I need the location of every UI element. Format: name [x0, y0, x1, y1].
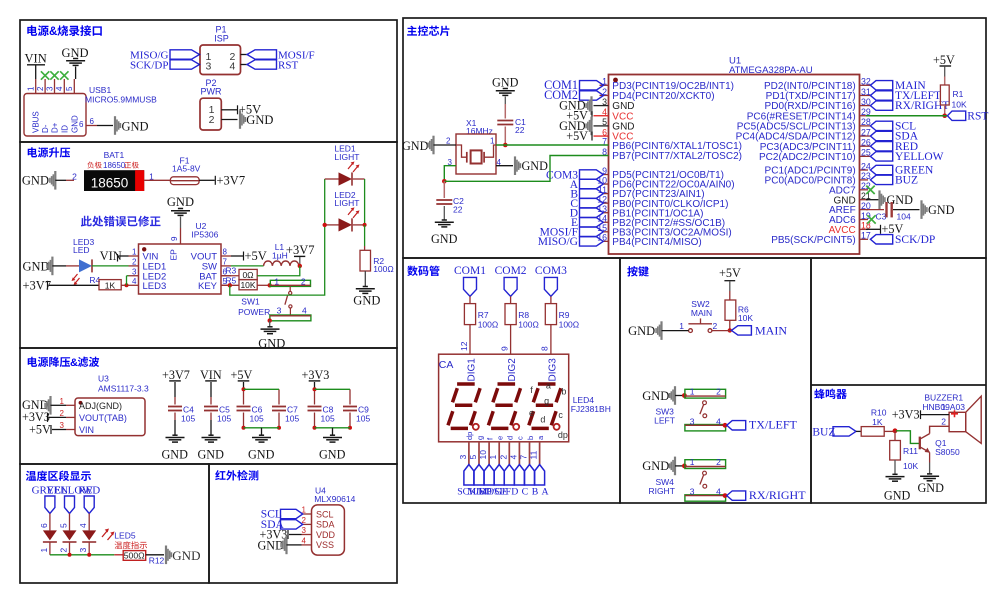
svg-text:PB4(PCINT4/MISO): PB4(PCINT4/MISO) [612, 237, 701, 248]
resistor R9 100ohm [545, 304, 556, 325]
net flag RX/RIGHT [727, 491, 746, 500]
ground (C6 C7) [252, 435, 271, 442]
svg-text:RST: RST [967, 111, 988, 123]
capacitor C2 22 [443, 181, 445, 198]
svg-text:MAIN: MAIN [691, 308, 712, 318]
svg-text:105: 105 [181, 414, 195, 424]
svg-text:PB7(PCINT7/XTAL2/TOSC2): PB7(PCINT7/XTAL2/TOSC2) [612, 151, 742, 162]
section title 数码管 [407, 266, 439, 276]
svg-text:GND: GND [431, 232, 458, 246]
svg-text:USB1: USB1 [89, 85, 111, 95]
wire C8/C9 bottoms to GND [315, 427, 351, 429]
svg-text:2: 2 [941, 417, 946, 427]
svg-text:30: 30 [861, 97, 871, 107]
svg-text:GND: GND [258, 538, 285, 552]
wire GND to LED3 [52, 265, 66, 267]
svg-text:LED3: LED3 [143, 281, 167, 292]
svg-text:+3V7: +3V7 [217, 174, 246, 188]
svg-text:105: 105 [217, 414, 231, 424]
svg-text:5: 5 [602, 117, 607, 127]
svg-text:RIGHT: RIGHT [648, 486, 674, 496]
svg-text:SDA: SDA [316, 520, 335, 530]
resistor R12 500ohm [123, 551, 146, 561]
U1 left pin stubs 1-6 [600, 84, 609, 86]
svg-text:GND: GND [70, 115, 79, 133]
svg-text:2: 2 [446, 137, 451, 146]
wire +5V to R1 [944, 67, 946, 77]
wire R10 to base node [884, 430, 895, 432]
svg-text:6: 6 [79, 120, 84, 129]
wire node to Q1 base [896, 431, 920, 444]
svg-text:104: 104 [897, 212, 911, 222]
wire Q1 emitter to GND [929, 452, 931, 462]
svg-text:4: 4 [302, 306, 307, 316]
capacitor C1 22 [497, 120, 513, 122]
svg-text:10: 10 [478, 450, 488, 460]
svg-text:100Ω: 100Ω [373, 264, 394, 274]
svg-text:4: 4 [78, 523, 88, 528]
ground (C5) [202, 435, 221, 442]
svg-text:1K: 1K [105, 281, 116, 291]
svg-text:1A5-8V: 1A5-8V [172, 164, 201, 174]
net flag MOSI/F [247, 50, 277, 59]
wire KEY node up to LEDs [230, 179, 325, 295]
svg-text:8: 8 [540, 346, 550, 351]
svg-text:GND: GND [246, 113, 273, 127]
svg-text:D+: D+ [51, 122, 60, 133]
net label +5V (U2) [243, 252, 245, 261]
svg-text:VIN: VIN [25, 52, 47, 66]
connector USB1 body [24, 94, 86, 137]
svg-text:c: c [516, 436, 525, 440]
wire C3 to GND [893, 209, 920, 211]
svg-text:AMS1117-3.3: AMS1117-3.3 [98, 384, 149, 394]
wire C6/C7 bottoms to GND [244, 427, 280, 429]
svg-text:1: 1 [27, 86, 36, 91]
svg-text:27: 27 [861, 127, 871, 137]
wire X1 pin1 to U1 PB6 [496, 144, 609, 146]
LED4 digit 3 segments [538, 382, 556, 386]
svg-text:YELLOW: YELLOW [895, 151, 944, 163]
svg-text:10K: 10K [738, 313, 753, 323]
svg-text:8: 8 [223, 248, 228, 257]
svg-text:11: 11 [529, 450, 539, 459]
svg-text:22: 22 [453, 204, 463, 214]
section title 红外检测 [215, 470, 258, 481]
svg-text:9: 9 [499, 346, 509, 351]
wire VIN to U2 pin1 [119, 255, 129, 257]
svg-text:CA: CA [439, 359, 454, 371]
svg-text:5: 5 [468, 455, 478, 460]
wire COM3 to R9 [550, 296, 552, 303]
net flag BUZ [870, 175, 892, 184]
svg-text:+3V3: +3V3 [302, 368, 330, 382]
svg-text:+5V: +5V [245, 249, 267, 263]
svg-text:LEFT: LEFT [654, 416, 675, 426]
wire GND to U2 EP pin9 [180, 217, 182, 229]
svg-text:SCL: SCL [316, 509, 334, 519]
svg-text:VIN: VIN [79, 425, 94, 435]
svg-text:100Ω: 100Ω [559, 319, 580, 329]
svg-text:LED5: LED5 [114, 531, 136, 541]
wire P2 pin2 to GND [221, 119, 237, 121]
resistor R7 100ohm [464, 304, 475, 325]
svg-text:GND: GND [198, 448, 225, 462]
section title 电源&烧录接口 [27, 25, 49, 36]
svg-text:4: 4 [55, 86, 64, 91]
capacitor C7 105 [278, 389, 280, 404]
svg-text:4: 4 [508, 455, 518, 460]
ground symbol (usb GND) [66, 59, 85, 66]
ground flag GND (C3) [920, 200, 927, 219]
svg-text:4: 4 [230, 60, 236, 72]
wire U2 KEY to R5 [221, 284, 239, 286]
svg-text:BUZZER1: BUZZER1 [924, 393, 963, 403]
svg-text:BUZ: BUZ [812, 427, 835, 439]
U4 pin stubs and numbers [302, 513, 312, 515]
ground (C2) [435, 220, 454, 227]
svg-text:12: 12 [459, 341, 469, 351]
svg-text:ISP: ISP [214, 34, 229, 44]
svg-text:1: 1 [679, 321, 684, 331]
wire C2 to GND [443, 206, 445, 220]
svg-text:EP: EP [169, 249, 179, 261]
svg-text:28: 28 [861, 117, 871, 127]
svg-text:1K: 1K [872, 417, 883, 427]
wire R1 to RST net [944, 105, 946, 116]
svg-text:DIG2: DIG2 [507, 358, 518, 382]
ground (C8 C9) [323, 435, 342, 442]
net port COM2 [504, 277, 517, 296]
wire pin6 to GND [97, 125, 113, 127]
net port and LED5 element 1 [45, 496, 55, 514]
svg-text:R5: R5 [225, 276, 236, 286]
wire X1 pin3 down to C2 [444, 166, 456, 182]
svg-text:25: 25 [861, 148, 871, 158]
svg-text:4: 4 [302, 536, 307, 545]
svg-text:32: 32 [861, 77, 871, 87]
svg-text:PWR: PWR [201, 86, 222, 96]
svg-text:+3V7: +3V7 [162, 368, 190, 382]
section title 按键 [627, 266, 649, 277]
svg-text:19: 19 [861, 211, 871, 221]
svg-text:GND: GND [167, 195, 194, 209]
ground flag GND (R12) [165, 546, 172, 565]
svg-text:SCK/DP: SCK/DP [130, 60, 169, 72]
svg-text:1: 1 [490, 137, 495, 146]
svg-text:FJ2381BH: FJ2381BH [571, 404, 611, 414]
svg-text:GND: GND [887, 193, 914, 207]
svg-text:KEY: KEY [198, 281, 218, 292]
svg-text:22: 22 [515, 125, 525, 135]
LED5 emission arrows [102, 531, 113, 541]
svg-text:D: D [511, 487, 518, 498]
svg-text:10K: 10K [240, 280, 255, 290]
svg-text:A: A [542, 487, 549, 498]
wire R2 to GND [364, 271, 366, 286]
svg-text:C: C [522, 487, 529, 498]
svg-text:+3V7: +3V7 [286, 243, 315, 257]
svg-text:g: g [544, 396, 549, 406]
svg-text:LIGHT: LIGHT [334, 198, 359, 208]
svg-text:GND: GND [162, 448, 189, 462]
svg-text:1: 1 [488, 455, 498, 460]
wire +3V3 to buzzer pin1 [921, 414, 950, 416]
svg-text:23: 23 [861, 171, 871, 181]
svg-text:+5V: +5V [933, 53, 955, 67]
svg-text:2: 2 [209, 114, 215, 126]
svg-text:+3V3: +3V3 [892, 408, 920, 422]
svg-text:&: & [49, 26, 57, 38]
svg-text:105: 105 [285, 414, 299, 424]
wire U2 pin3 junction [127, 275, 129, 277]
wire R4 to U2 pin4 [121, 284, 128, 286]
net port COM1 [464, 277, 477, 296]
net flag RST (isp) [247, 60, 277, 69]
ground (R11) [886, 474, 905, 481]
net port and LED5 element 2 [65, 496, 75, 514]
svg-text:+5V: +5V [719, 266, 741, 280]
svg-text:3: 3 [78, 548, 88, 553]
svg-text:GND: GND [402, 139, 429, 153]
wire L1 to +3V7 [299, 257, 301, 266]
svg-text:c: c [558, 410, 563, 420]
wire COM1 to R7 [469, 296, 471, 303]
svg-text:R1: R1 [953, 89, 964, 99]
wire GND to X1 pin2 [434, 144, 457, 146]
wire SW1 pin3 to GND [269, 321, 271, 327]
svg-text:GND: GND [258, 337, 285, 351]
wire R7 to LED4 pin 12 [469, 325, 471, 355]
svg-text:1: 1 [149, 172, 154, 182]
svg-text:LIGHT: LIGHT [334, 152, 359, 162]
svg-text:E: E [502, 487, 508, 498]
ground (R2) [356, 287, 375, 294]
net label +5V (P2) [237, 105, 239, 114]
resistor R8 100ohm [505, 304, 516, 325]
display LED4 FJ2381BH body [439, 354, 569, 442]
svg-text:PC2(ADC2/PCINT10): PC2(ADC2/PCINT10) [759, 152, 856, 163]
svg-text:VOUT(TAB): VOUT(TAB) [79, 413, 127, 423]
section title 蜂鸣器 [814, 389, 847, 399]
resistor R6 10K [725, 300, 736, 320]
wire R8 to LED4 pin 9 [510, 325, 512, 355]
svg-text:2: 2 [36, 86, 45, 91]
svg-text:ADJ(GND): ADJ(GND) [79, 401, 122, 411]
svg-text:GND: GND [928, 203, 955, 217]
svg-text:VIN: VIN [200, 368, 222, 382]
svg-text:31: 31 [861, 87, 871, 97]
pin stubs USB1 [35, 79, 37, 94]
wire LED cathodes to R2 [364, 179, 366, 225]
svg-text:GND: GND [353, 294, 380, 308]
wire VIN to USB pin1 [35, 65, 37, 79]
svg-text:GND: GND [248, 448, 275, 462]
net port and LED5 element 3 [84, 496, 94, 514]
svg-text:4: 4 [716, 487, 721, 497]
no-connect X pin19 ADC6 [867, 215, 875, 223]
svg-text:SW1: SW1 [241, 297, 260, 307]
svg-text:DIG1: DIG1 [467, 358, 478, 382]
svg-text:GND: GND [884, 489, 911, 503]
wires P1 right pins [241, 54, 248, 56]
net label +3V7 (battery) [214, 176, 216, 185]
ground (Q1) [920, 474, 939, 481]
svg-text:2: 2 [716, 457, 721, 467]
svg-text:PB5(SCK/PCINT5): PB5(SCK/PCINT5) [771, 235, 855, 246]
svg-text:BAT1: BAT1 [104, 150, 125, 160]
svg-text:RST: RST [278, 60, 298, 72]
svg-text:POWER: POWER [238, 307, 270, 317]
wire R9 to LED4 pin 8 [550, 325, 552, 355]
wire +3V3 into C8/C9 pair [314, 382, 316, 389]
wire Q1 collector to buzzer pin2 [930, 426, 950, 433]
svg-text:BUZ: BUZ [895, 175, 918, 187]
net flag SCK/DP (PB5) [870, 235, 892, 244]
svg-text:R11: R11 [903, 446, 918, 456]
svg-text:2: 2 [132, 257, 137, 266]
wire GND to C1 [504, 97, 506, 105]
net flag RST [947, 111, 965, 120]
wire +3V7 to R4 [49, 284, 100, 286]
svg-text:ID: ID [60, 125, 69, 133]
svg-text:GND: GND [918, 481, 945, 495]
svg-text:COM3: COM3 [535, 265, 567, 277]
svg-text:1: 1 [274, 276, 279, 286]
wire BUZ to R10 [856, 430, 861, 432]
svg-text:5: 5 [59, 523, 69, 528]
wire U2 BAT to R3 [221, 275, 239, 277]
svg-text:105: 105 [250, 414, 264, 424]
svg-text:GND: GND [642, 459, 669, 473]
svg-text:RX/RIGHT: RX/RIGHT [749, 488, 806, 502]
svg-text:GND: GND [628, 324, 655, 338]
wire GND to SW2 pin1 [662, 330, 689, 332]
resistor R1 10K [940, 85, 949, 105]
svg-text:D-: D- [41, 124, 50, 133]
svg-text:S8050: S8050 [935, 447, 960, 457]
svg-text:3: 3 [206, 60, 212, 72]
svg-text:R3: R3 [225, 266, 236, 276]
svg-text:TX/LEFT: TX/LEFT [749, 418, 798, 432]
svg-text:1: 1 [132, 248, 137, 257]
wire R11 to GND [894, 460, 896, 474]
capacitor C9 105 [349, 389, 351, 404]
wire PC6 reset to RST flag [866, 115, 949, 117]
section title 温度区段显示 [26, 471, 91, 482]
svg-text:RX/RIGHT: RX/RIGHT [895, 100, 949, 112]
wire COM2 to R8 [510, 296, 512, 303]
wire X1 pin4 to GND [496, 165, 513, 167]
net label +5V (AVCC) [866, 228, 880, 230]
svg-text:0Ω: 0Ω [242, 270, 253, 280]
wire P2 pin1 to +5V [221, 109, 237, 111]
svg-text:VDD: VDD [316, 530, 336, 540]
wire GND to BAT1 [55, 179, 66, 181]
section title 电源升压 [28, 147, 70, 157]
svg-text:&: & [70, 357, 78, 369]
svg-text:6: 6 [39, 523, 49, 528]
svg-text:b: b [526, 436, 535, 440]
svg-text:10K: 10K [952, 100, 967, 110]
net port COM3 [544, 277, 557, 296]
wire R12 to GND [146, 554, 164, 556]
svg-text:9: 9 [170, 236, 179, 241]
svg-text:1: 1 [39, 548, 49, 553]
svg-text:GND: GND [642, 389, 669, 403]
LED4 digit 2 segments [498, 382, 516, 386]
svg-text:C3: C3 [876, 212, 887, 222]
svg-text:RED: RED [78, 485, 100, 497]
svg-text:3: 3 [458, 455, 468, 460]
ground (C4) [166, 435, 185, 442]
svg-text:24: 24 [861, 161, 871, 171]
LED4 digit 1 segments [457, 382, 475, 386]
svg-text:4: 4 [716, 416, 721, 426]
wire GND to USB pin5 [75, 67, 77, 80]
svg-text:SCK/DP: SCK/DP [895, 234, 935, 246]
svg-text:3: 3 [277, 306, 282, 316]
U1 right pin stubs 32-25 with net flags [860, 84, 871, 86]
note 此处错误已修正 [81, 216, 161, 227]
wire LED3 to U2 pin2 [92, 265, 129, 267]
ground flag GND (P2) [239, 110, 246, 129]
svg-text:3: 3 [602, 97, 607, 107]
svg-text:B: B [532, 487, 539, 498]
wires P1 left pins [199, 54, 202, 56]
svg-text:2: 2 [716, 387, 721, 397]
svg-text:GND: GND [23, 259, 50, 273]
svg-text:MAIN: MAIN [755, 323, 787, 337]
svg-text:dp: dp [465, 432, 474, 440]
wire F1 to +3V7 [199, 179, 215, 181]
wire SW2 pin2 to MAIN flag [712, 330, 732, 332]
svg-text:1: 1 [690, 457, 695, 467]
svg-text:2: 2 [72, 172, 77, 182]
wire node to U1 PB7 [444, 156, 608, 182]
svg-text:GND: GND [522, 159, 549, 173]
svg-text:2: 2 [301, 276, 306, 286]
svg-text:GND: GND [122, 120, 149, 134]
svg-text:U3: U3 [98, 374, 109, 384]
svg-text:a: a [546, 380, 551, 390]
U3 pin stubs and numbers [66, 404, 75, 406]
svg-text:LED: LED [73, 245, 90, 255]
ground (SW1) [261, 327, 280, 334]
svg-text:b: b [561, 386, 566, 396]
svg-text:d: d [506, 436, 515, 440]
svg-text:GND: GND [22, 174, 49, 188]
svg-text:+3V7: +3V7 [23, 278, 52, 292]
svg-text:d: d [540, 414, 545, 424]
net flag TX/LEFT [727, 421, 746, 430]
svg-text:+5V: +5V [231, 368, 253, 382]
svg-text:3: 3 [690, 416, 695, 426]
svg-text:R12: R12 [149, 556, 165, 566]
wire R5 to SW1 [257, 284, 270, 286]
svg-text:IP5306: IP5306 [191, 230, 218, 240]
section title 电源降压&滤波 [28, 357, 70, 367]
svg-text:GND: GND [319, 448, 346, 462]
svg-text:10K: 10K [903, 461, 918, 471]
wire AREF to C3 [866, 209, 884, 211]
svg-text:3: 3 [45, 86, 54, 91]
svg-text:26: 26 [861, 138, 871, 148]
svg-text:6: 6 [90, 117, 95, 126]
svg-text:5: 5 [65, 86, 74, 91]
resistor R2 100ohm [360, 250, 371, 271]
svg-text:DIG3: DIG3 [547, 358, 558, 382]
